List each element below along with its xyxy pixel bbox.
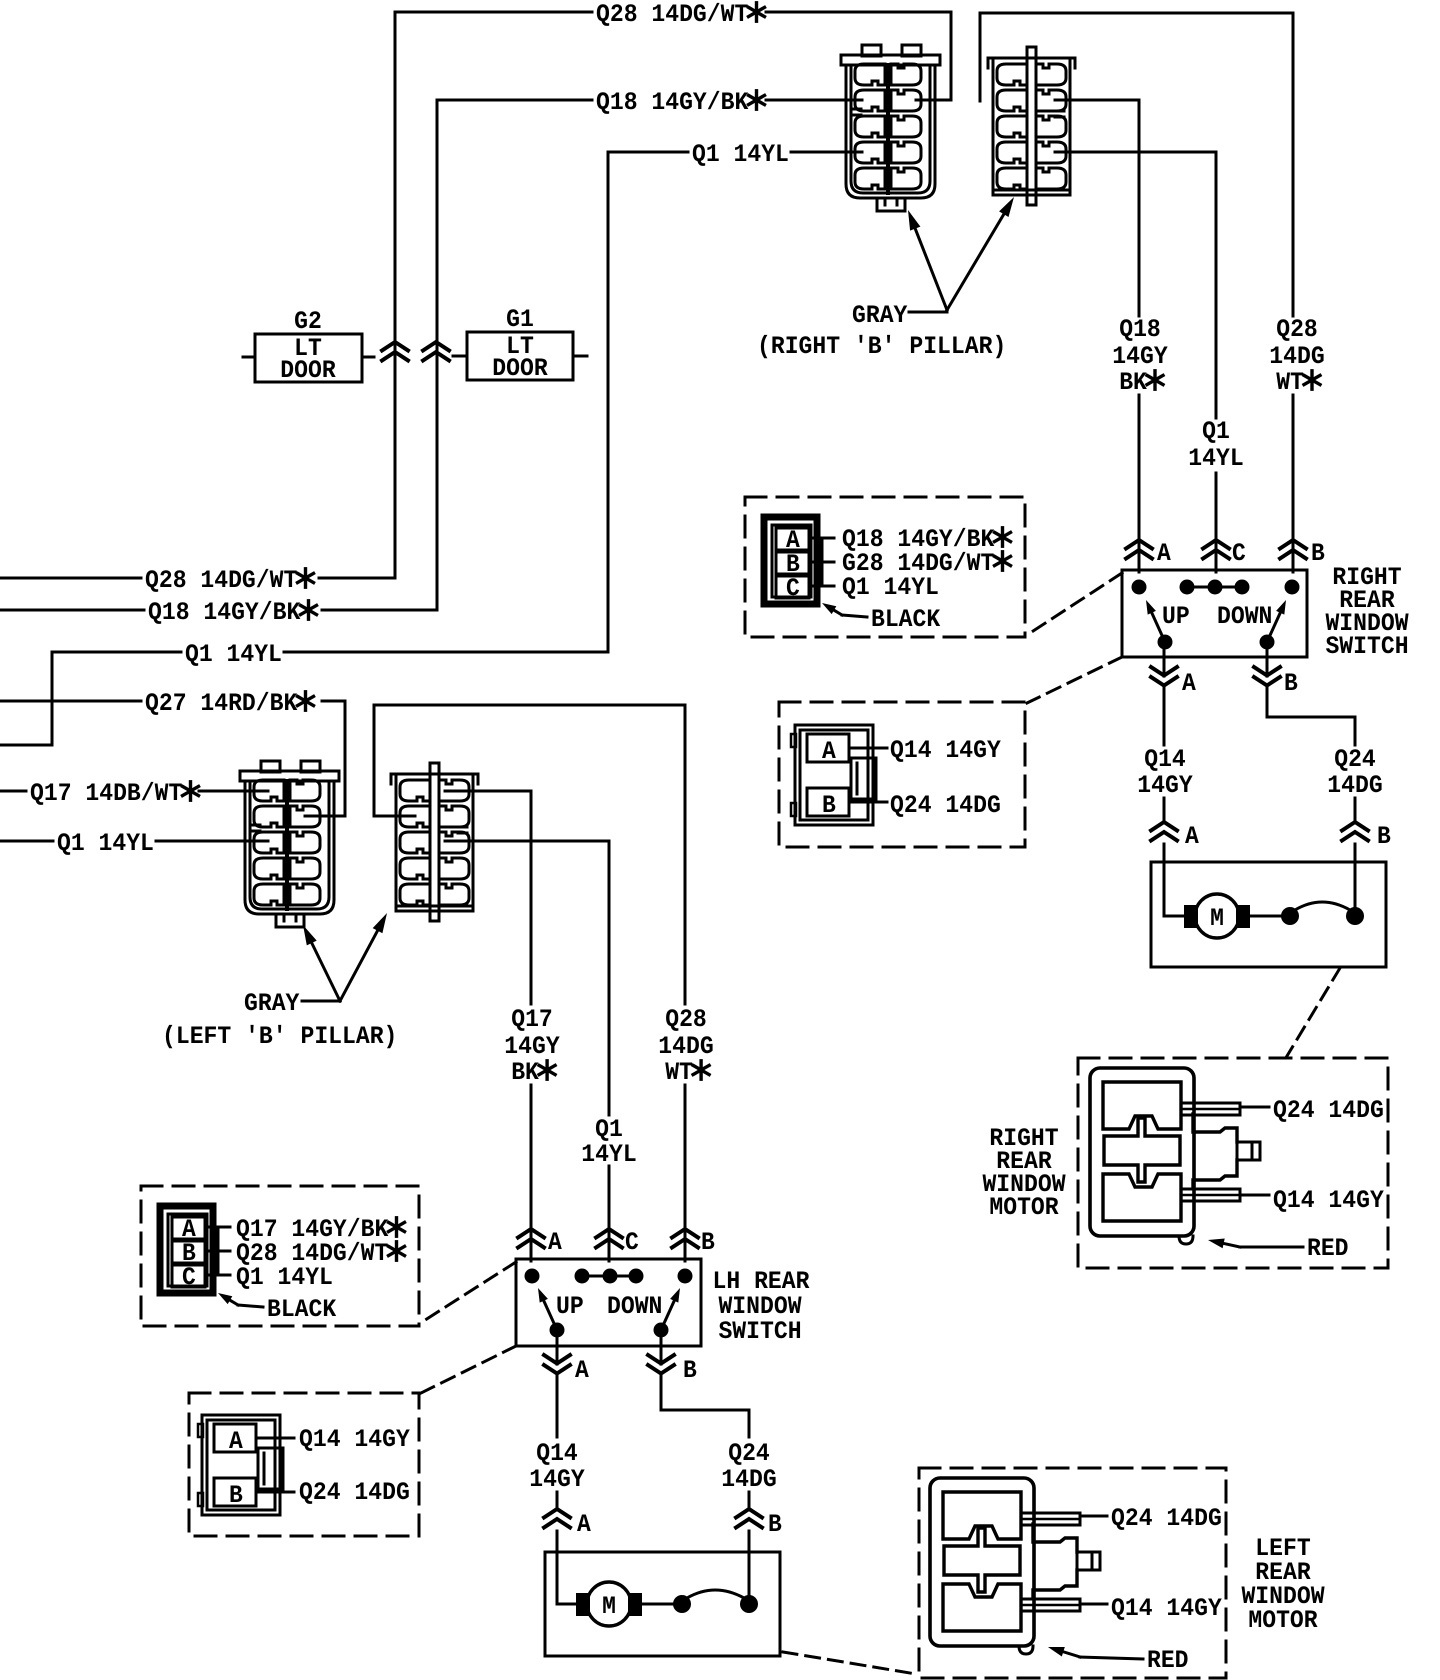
svg-text:GRAY: GRAY — [244, 989, 299, 1018]
chevron A at right motor — [1151, 822, 1177, 831]
svg-text:C: C — [182, 1263, 196, 1292]
svg-text:GRAY: GRAY — [852, 301, 907, 330]
inline connector chevron C (LH switch) — [596, 1229, 622, 1238]
svg-text:Q24: Q24 — [728, 1439, 770, 1468]
svg-text:B: B — [1377, 822, 1391, 851]
svg-text:Q24 14DG: Q24 14DG — [1273, 1096, 1384, 1125]
svg-text:B: B — [683, 1356, 697, 1385]
label RED with arrow — [1240, 1246, 1303, 1249]
svg-text:C: C — [786, 574, 800, 603]
svg-text:Q18 14GY/BK: Q18 14GY/BK — [596, 88, 748, 117]
svg-text:B: B — [701, 1228, 715, 1257]
svg-text:DOWN: DOWN — [1217, 602, 1272, 631]
svg-text:Q14: Q14 — [536, 1439, 578, 1468]
svg-text:B: B — [768, 1510, 782, 1539]
chevron B at right motor — [1342, 822, 1368, 831]
label RED with arrow — [1080, 1657, 1143, 1659]
svg-text:G2: G2 — [294, 307, 322, 336]
wire from switch B output — [1266, 642, 1269, 676]
wire from switch A output — [1163, 642, 1166, 676]
wire Q28 from left edge — [0, 577, 141, 580]
connector LH switch 3-pin BLACK — [160, 1206, 230, 1293]
svg-text:Q14 14GY: Q14 14GY — [1111, 1594, 1222, 1623]
dashed detail box right switch connector — [745, 497, 1025, 637]
svg-text:B: B — [229, 1481, 243, 1510]
svg-text:Q14 14GY: Q14 14GY — [299, 1425, 410, 1454]
wire Q17 from left edge — [0, 790, 26, 793]
svg-text:SWITCH: SWITCH — [718, 1317, 801, 1346]
contact bus line — [582, 1275, 636, 1278]
wire Q28 loop over to right switch B — [980, 13, 1293, 316]
wire Q17 into connector — [199, 790, 268, 793]
connector right switch 3-pin BLACK — [764, 517, 834, 604]
svg-text:BLACK: BLACK — [267, 1295, 336, 1324]
switch contacts top row dots — [1132, 580, 1147, 595]
svg-text:UP: UP — [556, 1292, 584, 1321]
svg-text:Q24 14DG: Q24 14DG — [890, 791, 1001, 820]
svg-text:B: B — [822, 791, 836, 820]
svg-text:DOOR: DOOR — [280, 356, 335, 385]
wire Q1 lower from left edge — [0, 840, 53, 843]
svg-text:14GY: 14GY — [1112, 342, 1167, 371]
connector left rear window motor (RED) — [930, 1478, 1100, 1654]
svg-text:C: C — [625, 1228, 639, 1257]
switch arm UP — [543, 1299, 557, 1330]
svg-text:14GY: 14GY — [504, 1032, 559, 1061]
inline connector chevron A (LH switch) — [518, 1229, 544, 1238]
wire Q28 14DG/WT* top run — [395, 12, 592, 578]
svg-text:BLACK: BLACK — [871, 605, 940, 634]
splice chevron on Q18 wire at G row — [423, 342, 449, 351]
svg-text:(RIGHT 'B' PILLAR): (RIGHT 'B' PILLAR) — [757, 332, 1006, 361]
splice chevron on Q28 wire at G row — [382, 342, 408, 351]
connector right B-pillar half B (10-pin GRAY) — [988, 47, 1075, 205]
wire Q28 drop to chevron B — [1292, 395, 1295, 562]
svg-text:M: M — [602, 1592, 616, 1621]
svg-text:SWITCH: SWITCH — [1325, 632, 1408, 661]
svg-text:A: A — [1157, 539, 1171, 568]
connector right B-pillar half A (10-pin GRAY) — [841, 45, 940, 211]
svg-text:WT: WT — [1276, 368, 1304, 397]
svg-text:A: A — [1182, 669, 1196, 698]
label Q24 14DG — [1240, 1106, 1269, 1109]
chevron B below LH switch — [648, 1355, 674, 1364]
svg-text:A: A — [548, 1228, 562, 1257]
inline connector chevron B (LH switch) — [672, 1229, 698, 1238]
inline connector chevron C (right switch) — [1203, 540, 1229, 549]
svg-text:Q28 14DG/WT: Q28 14DG/WT — [596, 0, 748, 29]
wire Q27 from left edge — [0, 700, 141, 703]
svg-text:B: B — [1284, 669, 1298, 698]
switch arm DOWN — [1267, 611, 1281, 642]
svg-text:14YL: 14YL — [1188, 444, 1243, 473]
inline connector chevron B (right switch) — [1280, 540, 1306, 549]
wire Q1 from connector to LH switch C — [445, 841, 609, 1115]
chevron A below LH switch — [544, 1355, 570, 1364]
wire into motor — [557, 1603, 576, 1606]
wire Q18 from connector to right switch A — [1055, 100, 1139, 316]
svg-text:A: A — [229, 1427, 243, 1456]
wire Q1 from connector to right switch C — [1055, 152, 1216, 418]
label BLACK with arrow — [238, 1305, 263, 1307]
connector left B-pillar half B (10-pin GRAY) — [391, 763, 478, 921]
switch arm DOWN — [661, 1299, 675, 1330]
svg-text:Q18: Q18 — [1119, 315, 1161, 344]
wire Q18 into connector — [766, 99, 862, 102]
motor M circle — [587, 1582, 631, 1626]
wire Q1 into connector — [791, 151, 862, 154]
dashed leader LH switch to 3-pin box — [422, 1262, 516, 1322]
svg-text:Q1: Q1 — [1202, 417, 1230, 446]
dashed leader motor box to connector box — [1287, 968, 1340, 1056]
svg-text:Q17: Q17 — [511, 1005, 553, 1034]
svg-text:Q28: Q28 — [665, 1005, 707, 1034]
svg-text:MOTOR: MOTOR — [1248, 1606, 1317, 1635]
left rear window motor box — [545, 1552, 780, 1656]
svg-text:Q24 14DG: Q24 14DG — [299, 1478, 410, 1507]
dashed detail box LH switch output connector — [189, 1393, 419, 1536]
svg-text:Q27 14RD/BK: Q27 14RD/BK — [145, 689, 297, 718]
ground G1 LT DOOR — [453, 305, 587, 383]
dashed leader LH switch to 2-pin box — [421, 1346, 516, 1393]
motor M circle — [1195, 894, 1239, 938]
wire Q1 14YL top run — [608, 152, 688, 652]
dashed detail box right switch output connector — [779, 702, 1025, 847]
LH rear window switch box — [516, 1259, 701, 1346]
wire Q1 into connector row3 — [156, 840, 268, 843]
chevron A at LH motor — [544, 1509, 570, 1518]
svg-text:M: M — [1210, 904, 1224, 933]
wire Q18 drop to chevron A — [1138, 395, 1141, 562]
dashed leader switch to 3-pin box — [1027, 573, 1122, 635]
svg-text:BK: BK — [1119, 368, 1147, 397]
chevron B at LH motor — [736, 1509, 762, 1518]
svg-text:14GY: 14GY — [1137, 771, 1192, 800]
wire Q27 to left pillar connector — [305, 701, 345, 816]
svg-text:Q1 14YL: Q1 14YL — [185, 640, 282, 669]
motor terminal tabs — [1184, 905, 1198, 928]
svg-text:Q1 14YL: Q1 14YL — [236, 1263, 333, 1292]
svg-text:Q1 14YL: Q1 14YL — [842, 573, 939, 602]
svg-text:Q18 14GY/BK: Q18 14GY/BK — [148, 598, 300, 627]
wire Q28 loop to LH switch B — [374, 705, 685, 1004]
label Q24 14DG — [1080, 1515, 1107, 1518]
svg-text:Q14: Q14 — [1144, 745, 1186, 774]
switch lower contact dots — [1158, 635, 1173, 650]
svg-text:MOTOR: MOTOR — [989, 1193, 1058, 1222]
connector LH switch 2-pin — [198, 1415, 294, 1515]
connector left B-pillar half A (10-pin GRAY) — [240, 761, 339, 927]
dashed detail box left rear window motor connector — [919, 1468, 1226, 1678]
wire Q1 drop to chevron C — [1215, 473, 1218, 562]
svg-text:Q24: Q24 — [1334, 745, 1376, 774]
wire Q18 14GY/BK* top run — [437, 100, 592, 610]
switch contacts top row dots — [525, 1269, 540, 1284]
svg-text:Q14 14GY: Q14 14GY — [1273, 1186, 1384, 1215]
svg-text:14DG: 14DG — [721, 1465, 776, 1494]
svg-text:Q17 14DB/WT: Q17 14DB/WT — [30, 779, 182, 808]
wire Q28 to right B-pillar connector pin — [766, 12, 951, 100]
svg-text:Q24 14DG: Q24 14DG — [1111, 1504, 1222, 1533]
svg-text:Q28 14DG/WT: Q28 14DG/WT — [145, 566, 297, 595]
right rear window motor box — [1151, 862, 1386, 967]
svg-text:Q1 14YL: Q1 14YL — [692, 140, 789, 169]
label Q14 14GY — [1240, 1194, 1269, 1197]
connector right rear window motor (RED) — [1090, 1068, 1260, 1244]
svg-text:UP: UP — [1162, 602, 1190, 631]
svg-text:DOOR: DOOR — [492, 354, 547, 383]
svg-text:14DG: 14DG — [1269, 342, 1324, 371]
right rear window switch box — [1122, 570, 1307, 657]
switch lower contact dots — [550, 1323, 565, 1338]
svg-text:Q1 14YL: Q1 14YL — [57, 829, 154, 858]
svg-text:WT: WT — [665, 1058, 693, 1087]
arrow to connector B — [947, 213, 1005, 311]
svg-text:14GY: 14GY — [529, 1465, 584, 1494]
svg-text:C: C — [1232, 539, 1246, 568]
motor terminal tabs — [576, 1593, 590, 1616]
dashed leader switch to 2-pin box — [1027, 657, 1122, 703]
svg-text:A: A — [822, 737, 836, 766]
ground G2 LT DOOR — [243, 307, 374, 385]
arrow to connector B — [340, 929, 379, 1001]
wire Q28 drop to chevron B — [684, 1085, 687, 1251]
dashed detail box right rear window motor connector — [1078, 1058, 1388, 1268]
svg-text:Q28: Q28 — [1276, 315, 1318, 344]
label Q14 14GY — [1080, 1603, 1107, 1606]
junction dots and jumper arc — [673, 1595, 691, 1613]
svg-text:G1: G1 — [506, 305, 534, 334]
svg-text:RED: RED — [1307, 1234, 1349, 1263]
wire into motor — [1164, 915, 1184, 918]
label BLACK with arrow — [842, 615, 867, 617]
wire Q18 from left edge — [0, 609, 144, 612]
svg-text:BK: BK — [511, 1058, 539, 1087]
inline connector chevron A (right switch) — [1126, 540, 1152, 549]
dashed detail box LH switch connector — [141, 1186, 419, 1326]
svg-text:RED: RED — [1147, 1646, 1189, 1675]
arrow to connector A — [915, 227, 948, 310]
svg-text:Q14 14GY: Q14 14GY — [890, 736, 1001, 765]
chevron B below right switch — [1254, 667, 1280, 676]
wire Q1 drop to chevron C — [608, 1166, 611, 1251]
chevron A below right switch — [1151, 667, 1177, 676]
arrow to connector A — [311, 941, 340, 1001]
wire Q17 drop to chevron A — [530, 1085, 533, 1251]
wire Q1 from left edge with jog — [0, 652, 181, 745]
svg-text:14DG: 14DG — [658, 1032, 713, 1061]
svg-text:A: A — [1185, 822, 1199, 851]
svg-text:DOWN: DOWN — [607, 1292, 662, 1321]
connector right switch 2-pin — [791, 725, 887, 825]
svg-text:A: A — [575, 1356, 589, 1385]
wire Q17 from connector to LH switch A — [445, 791, 531, 1004]
svg-text:14DG: 14DG — [1327, 771, 1382, 800]
wire from LH switch A output — [556, 1330, 559, 1364]
svg-text:(LEFT 'B' PILLAR): (LEFT 'B' PILLAR) — [162, 1022, 397, 1051]
svg-text:B: B — [1311, 539, 1325, 568]
junction dots and jumper arc — [1281, 907, 1299, 925]
dashed leader LH motor box to connector box — [783, 1652, 916, 1674]
switch arm UP — [1151, 611, 1165, 642]
svg-text:A: A — [577, 1510, 591, 1539]
contact bus line — [1187, 586, 1242, 589]
wire from LH switch B output — [660, 1330, 663, 1364]
